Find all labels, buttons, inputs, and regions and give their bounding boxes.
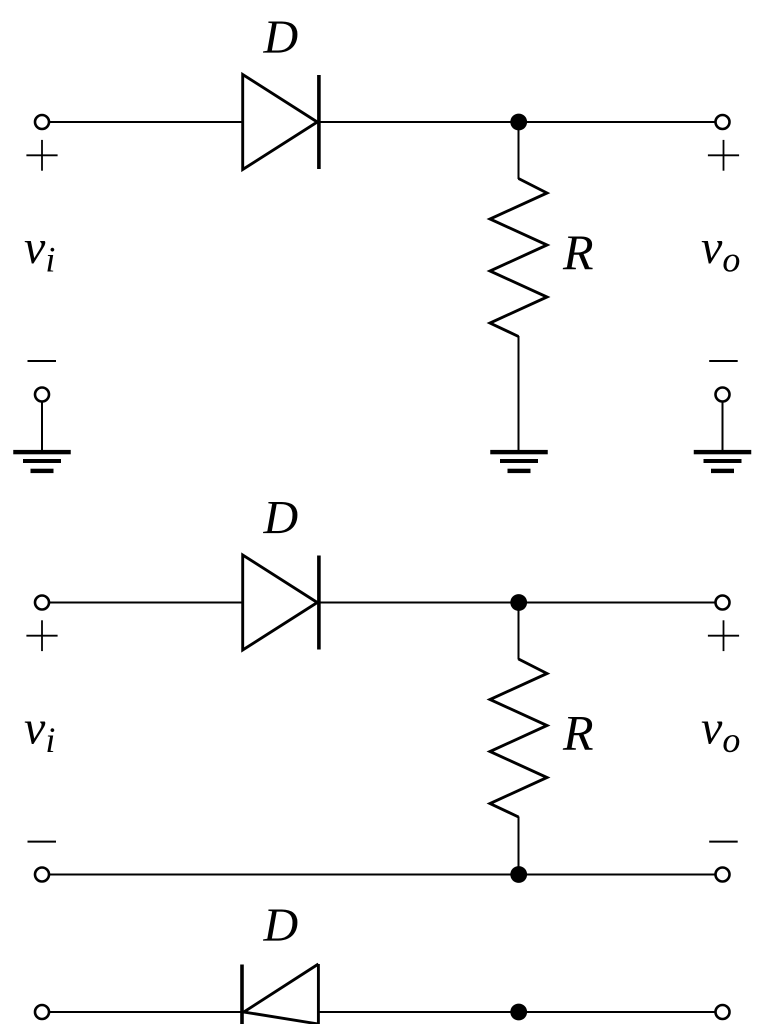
svg-text:D: D (263, 11, 299, 64)
terminal: output + terminal (circuit 3) (716, 1005, 730, 1019)
svg-text:R: R (562, 705, 594, 761)
wire: diode cathode to node (circuit 2) (319, 602, 519, 604)
terminal: input - terminal (circuit 1) (35, 388, 49, 402)
wire: input - terminal to ground (circuit 1) (41, 402, 43, 450)
wire: node to output terminal (circuit 2) (519, 602, 715, 604)
node junction dot top (circuit 2) (510, 594, 527, 611)
wire: input terminal to diode anode (circuit 2) (50, 602, 243, 604)
terminal: input + terminal (circuit 1) (35, 115, 49, 129)
diode D (circuit 3) cathode bar (240, 965, 244, 1024)
wire: node to output terminal (circuit 3) (519, 1011, 715, 1013)
ground at input (circuit 1) (13, 450, 71, 473)
wire: input terminal to diode cathode (circuit 3) (50, 1011, 242, 1013)
wire: output - terminal to ground (circuit 1) (722, 402, 724, 450)
ground at output (circuit 1) (694, 450, 752, 473)
plus sign right (circuit 2) (708, 620, 739, 651)
resistor R (circuit 2) zigzag (490, 659, 547, 817)
svg-text:D: D (263, 492, 299, 545)
plus sign left (circuit 1) (26, 140, 57, 171)
svg-text:vi: vi (24, 221, 55, 280)
minus sign right (circuit 1) (709, 360, 738, 362)
wire: resistor bottom lead to ground (circuit 1) (518, 336, 520, 450)
plus sign left (circuit 2) (26, 620, 57, 651)
svg-text:R: R (562, 224, 594, 280)
resistor R (circuit 1) zigzag (490, 179, 547, 337)
wire: resistor bottom lead to bottom rail (circuit 2) (518, 817, 520, 875)
svg-text:D: D (263, 899, 299, 952)
svg-text:vi: vi (24, 701, 55, 760)
minus sign left (circuit 1) (28, 360, 57, 362)
plus sign right (circuit 1) (708, 140, 739, 171)
diode D (circuit 1) triangle (243, 75, 318, 170)
wire: node to output terminal (circuit 1) (519, 121, 715, 123)
minus sign left (circuit 2) (28, 841, 57, 843)
terminal: input - terminal (circuit 2) (35, 868, 49, 882)
wire: bottom return rail (circuit 2) (50, 874, 715, 876)
terminal: output - terminal (circuit 1) (716, 388, 730, 402)
diode D (circuit 1) cathode bar (317, 75, 321, 169)
wire: node to resistor top lead (circuit 2) (518, 603, 520, 660)
terminal: input + terminal (circuit 2) (35, 596, 49, 610)
node junction dot (circuit 1) (510, 114, 527, 131)
terminal: output - terminal (circuit 2) (716, 868, 730, 882)
ground under resistor (circuit 1) (490, 450, 548, 473)
node junction dot bottom (circuit 2) (510, 866, 527, 883)
wire: diode anode to node (circuit 3) (318, 1011, 518, 1013)
diode D (circuit 2) cathode bar (317, 556, 321, 650)
diode D (circuit 3) triangle (points left) (244, 964, 319, 1024)
wire: diode cathode to node (circuit 1) (319, 121, 519, 123)
svg-text:vo: vo (701, 701, 740, 760)
wire: node to resistor top lead (circuit 1) (518, 122, 520, 179)
svg-text:vo: vo (701, 221, 740, 280)
minus sign right (circuit 2) (709, 841, 738, 843)
diode D (circuit 2) triangle (243, 555, 318, 650)
terminal: output + terminal (circuit 2) (716, 596, 730, 610)
node junction dot (circuit 3) (510, 1004, 527, 1021)
terminal: input + terminal (circuit 3) (35, 1005, 49, 1019)
terminal: output + terminal (circuit 1) (716, 115, 730, 129)
wire: input terminal to diode anode (circuit 1) (50, 121, 243, 123)
